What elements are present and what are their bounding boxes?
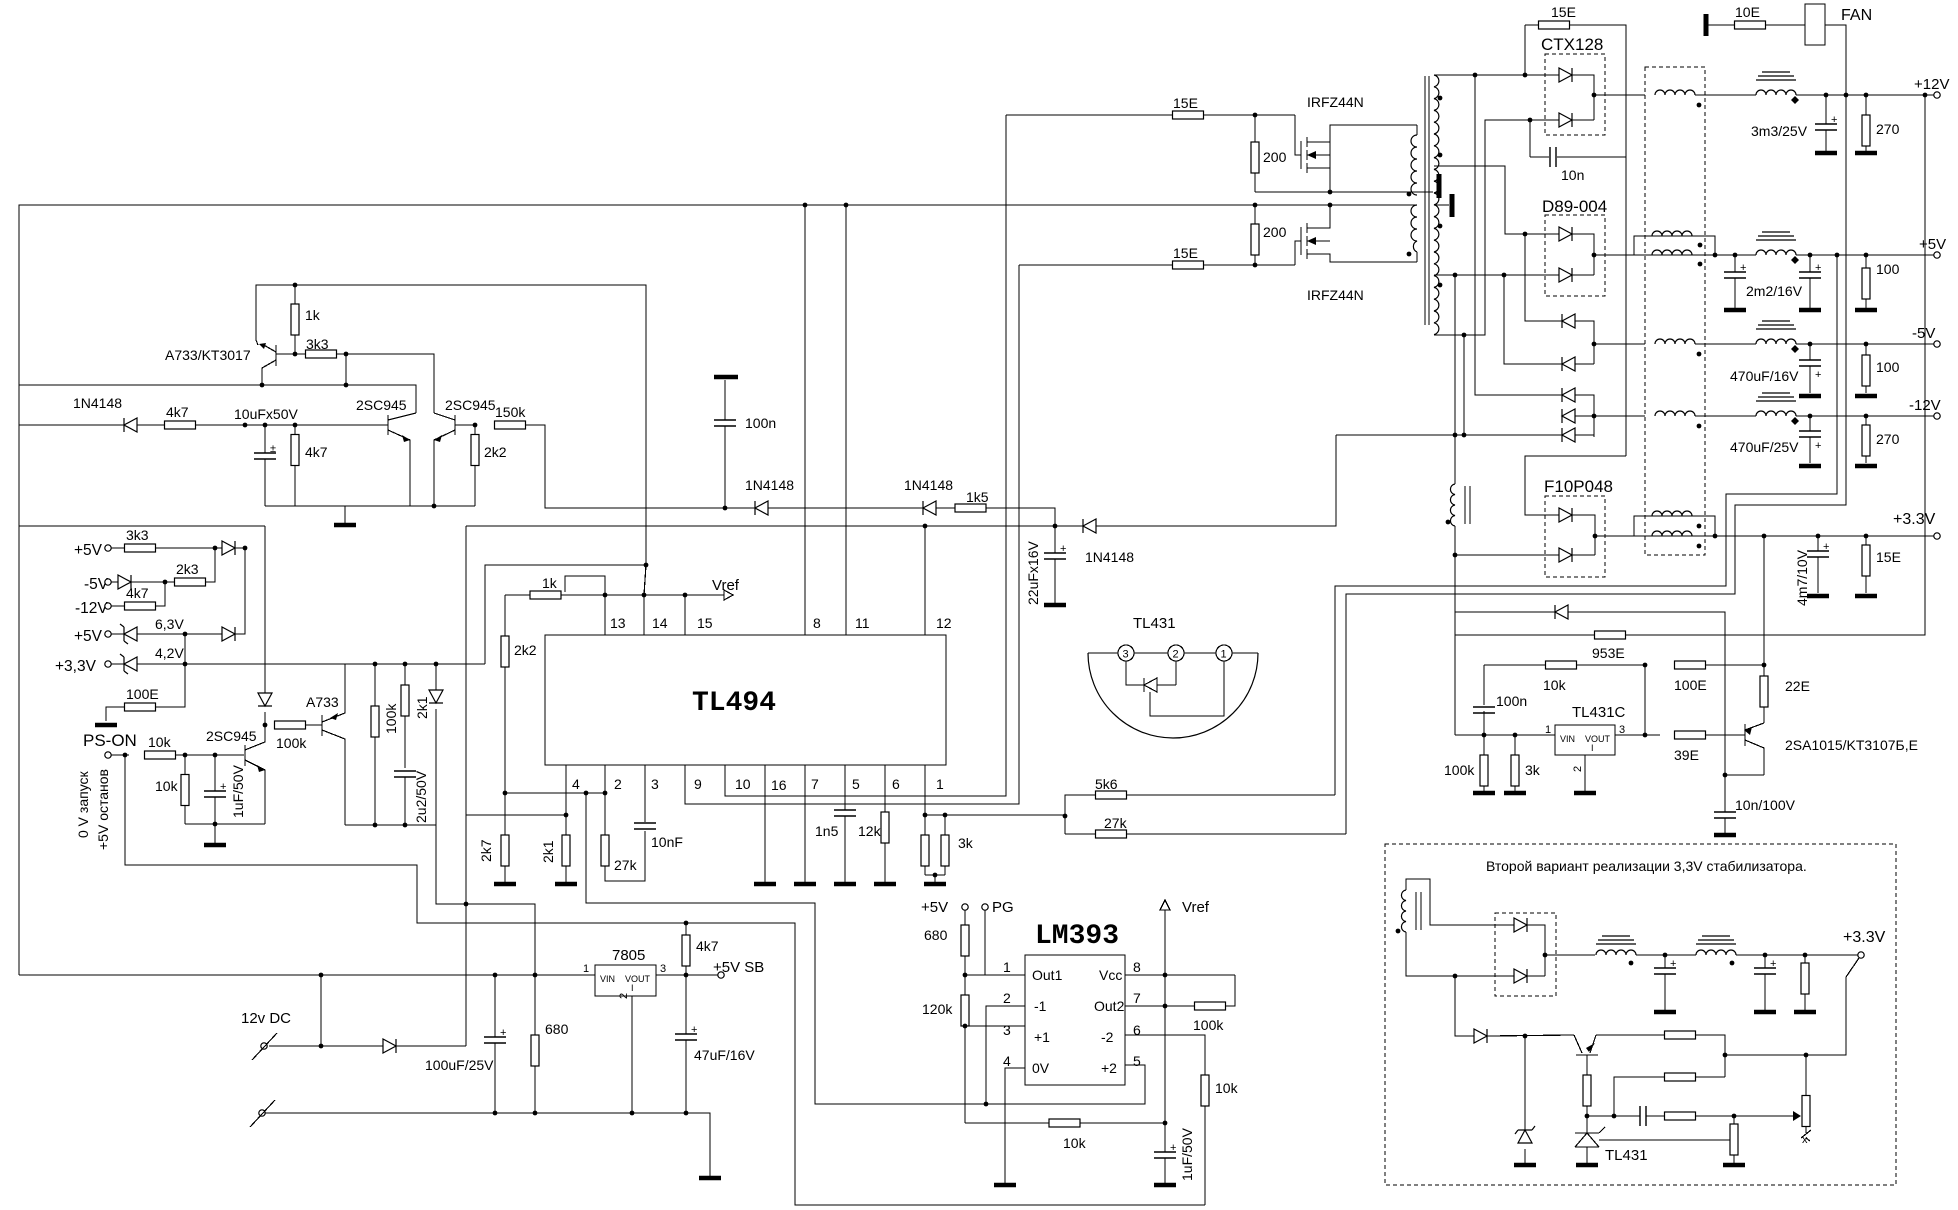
rectifier D1 CTX128 (dashed box) xyxy=(1541,35,1605,135)
svg-text:22uFx16V: 22uFx16V xyxy=(1025,541,1041,605)
svg-text:100E: 100E xyxy=(1674,677,1707,693)
svg-text:2k3: 2k3 xyxy=(176,561,199,577)
svg-text:TL431: TL431 xyxy=(1605,1147,1648,1164)
diode (D89-004 lower) xyxy=(1559,253,1634,282)
svg-text:Второй вариант реализации 3,3V: Второй вариант реализации 3,3V стабилиза… xyxy=(1486,858,1807,874)
resistor 2k1 (pin4 to ground) xyxy=(540,835,577,884)
transistor Q5 A733 (standby switch) xyxy=(306,664,345,825)
transformer T1 primary winding xyxy=(1407,125,1417,262)
svg-text:2: 2 xyxy=(1173,649,1179,661)
resistor 100k (Out2 pullup) xyxy=(1193,975,1235,1033)
wire: LM393 pin1 Out1 xyxy=(965,974,1025,976)
svg-text:+: + xyxy=(1770,958,1776,970)
svg-text:5: 5 xyxy=(852,776,860,792)
wire: LM393 pin7 Out2 xyxy=(1125,1005,1195,1007)
svg-text:2k2: 2k2 xyxy=(514,642,537,658)
wire: feedback sense drop to LM393 xyxy=(586,793,986,1104)
svg-text:15E: 15E xyxy=(1173,95,1198,111)
inductor (+5V output toroid) xyxy=(1756,232,1934,264)
wire: pin8 column to primary CT bus xyxy=(803,203,821,635)
transformer T1 core xyxy=(1425,76,1429,325)
node: standby rail junctions xyxy=(319,902,538,978)
resistor 27k (feedback) xyxy=(601,831,645,881)
zener 6,3V xyxy=(120,616,222,644)
svg-text:16: 16 xyxy=(771,777,787,793)
svg-text:1N4148: 1N4148 xyxy=(73,395,122,411)
capacitor 2m2/16V (second) xyxy=(1799,255,1821,310)
svg-text:7805: 7805 xyxy=(612,947,645,964)
capacitor 10uFx50V xyxy=(234,406,298,506)
inductor (-5V output toroid) xyxy=(1756,321,1934,353)
svg-text:22E: 22E xyxy=(1785,678,1810,694)
diode (2u2 cluster) xyxy=(429,662,443,825)
resistor 680 (7805 input bleed) xyxy=(531,975,569,1115)
wire: Vref rail y=595 with pot loop xyxy=(505,576,687,597)
svg-text:-5V: -5V xyxy=(84,576,109,593)
node: +5V output terminal xyxy=(1919,236,1946,258)
svg-text:1: 1 xyxy=(1003,959,1011,975)
inductor (variant choke 1) xyxy=(1596,936,1696,965)
wire: 3k3 tap down to y=385 xyxy=(345,354,347,385)
resistor 12k (pin6 RT) xyxy=(858,765,900,884)
resistor 120k (PG divider) xyxy=(922,995,969,1123)
svg-text:4: 4 xyxy=(1003,1053,1011,1069)
pin 16 to ground xyxy=(754,765,787,884)
wire: LM393 pin6 -2 xyxy=(1125,1035,1205,1075)
svg-text:1k: 1k xyxy=(542,575,558,591)
wire: pin15 stem xyxy=(684,595,686,635)
svg-text:CTX128: CTX128 xyxy=(1541,35,1603,54)
svg-text:PG: PG xyxy=(992,899,1014,916)
svg-text:8: 8 xyxy=(1133,959,1141,975)
capacitor 3m3/25V xyxy=(1751,95,1837,153)
resistor 39E xyxy=(1674,731,1745,763)
wire: 953E bus left edge drop xyxy=(1454,635,1456,735)
svg-text:3: 3 xyxy=(651,776,659,792)
node: +12V rail junctions xyxy=(1824,93,1928,98)
node: -5V rail junctions xyxy=(1808,342,1869,347)
wire: PS-ON run to LM393 +2 xyxy=(125,755,1205,1205)
svg-text:Vref: Vref xyxy=(712,577,740,594)
IC U4 7805 xyxy=(583,947,721,999)
svg-text:3k3: 3k3 xyxy=(306,336,329,352)
node: +5V sense input row4 xyxy=(74,628,124,645)
svg-text:+2: +2 xyxy=(1101,1060,1117,1076)
svg-text:3k: 3k xyxy=(958,835,974,851)
diode 1N4148 (base row) xyxy=(19,395,164,432)
resistor (variant fb low) xyxy=(1665,1112,1794,1120)
svg-text:15: 15 xyxy=(697,615,713,631)
svg-text:2: 2 xyxy=(1003,990,1011,1006)
node: PG output terminal xyxy=(982,899,1014,975)
svg-text:39E: 39E xyxy=(1674,747,1699,763)
wire: TL431 ref to fb node xyxy=(1700,1116,1734,1140)
svg-text:953E: 953E xyxy=(1592,645,1625,661)
wire: riser +5V upper to -5V diode1 xyxy=(1525,234,1562,321)
wire: pin13 stem xyxy=(604,595,606,635)
resistor 3k (TL431C) xyxy=(1504,735,1541,793)
svg-text:VOUT: VOUT xyxy=(625,974,651,984)
wire: winding top to rectifier xyxy=(1406,879,1514,925)
resistor 15E (gate drive bottom) xyxy=(1019,245,1295,269)
svg-text:5: 5 xyxy=(1133,1053,1141,1069)
diode (F10P048 upper) xyxy=(1559,508,1595,555)
resistor 5k6 xyxy=(1063,776,1335,834)
node: +5V SB output xyxy=(713,959,764,978)
svg-text:1: 1 xyxy=(1221,649,1227,661)
capacitor 47uF/16V xyxy=(675,975,755,1115)
svg-text:+: + xyxy=(1815,440,1821,452)
resistor 10k (PS-ON series) xyxy=(145,734,245,759)
resistor 680 (PG divider) xyxy=(924,925,969,995)
svg-text:270: 270 xyxy=(1876,431,1900,447)
svg-text:-12V: -12V xyxy=(75,600,108,617)
svg-text:10k: 10k xyxy=(148,734,172,750)
node: -5V output terminal xyxy=(1912,325,1940,347)
svg-text:+: + xyxy=(1815,262,1821,274)
ground (primary side bar) xyxy=(1437,174,1442,198)
rectifier (second variant, dashed box) xyxy=(1495,913,1556,996)
svg-text:2SA1015/KT3107Б,Е: 2SA1015/KT3107Б,Е xyxy=(1785,737,1918,753)
svg-text:+5V: +5V xyxy=(74,542,103,559)
svg-text:-1: -1 xyxy=(1034,998,1047,1014)
svg-text:1: 1 xyxy=(936,776,944,792)
node: return input terminal xyxy=(250,1100,275,1127)
svg-text:680: 680 xyxy=(924,927,948,943)
diode (variant bias) xyxy=(1474,1029,1574,1043)
svg-text:10n/100V: 10n/100V xyxy=(1735,797,1796,813)
node: +3.3V output terminal xyxy=(1893,511,1940,539)
svg-text:-2: -2 xyxy=(1101,1029,1114,1045)
transformer T2 aux winding xyxy=(1446,484,1470,526)
wire: A733 emitter top bus y=285 xyxy=(256,285,646,565)
resistor 270 (+12V load) xyxy=(1855,95,1900,153)
resistor 3k3 xyxy=(293,336,434,413)
svg-text:7: 7 xyxy=(1133,990,1141,1006)
capacitor 10n (snubber) xyxy=(1530,147,1626,183)
svg-text:2k7: 2k7 xyxy=(478,839,494,862)
svg-text:1N4148: 1N4148 xyxy=(1085,549,1134,565)
resistor 2k2 (Vref divider to pin4 net) xyxy=(501,595,537,795)
svg-text:100k: 100k xyxy=(276,735,307,751)
node: +3,3V sense input row5 xyxy=(55,658,124,675)
resistor 2k3 xyxy=(175,548,216,586)
wire: TL431C input node y=735 xyxy=(1455,734,1555,736)
svg-text:+: + xyxy=(1060,543,1066,555)
svg-text:47uF/16V: 47uF/16V xyxy=(694,1047,755,1063)
wire: LM393 pin4 0V to ground xyxy=(994,1068,1025,1185)
svg-text:100n: 100n xyxy=(745,415,776,431)
node: +3.3V rail junctions xyxy=(1762,534,1869,539)
IC TL431 (pinout view) xyxy=(1088,615,1258,738)
wire: +5V winding lower tap xyxy=(1434,274,1565,276)
resistor (variant base) xyxy=(1583,1075,1591,1133)
svg-text:27k: 27k xyxy=(1104,815,1128,831)
svg-text:1k: 1k xyxy=(305,307,321,323)
inductor (variant choke 2) xyxy=(1696,936,1858,965)
svg-text:Out1: Out1 xyxy=(1032,967,1063,983)
ground (100E) xyxy=(95,724,117,726)
svg-text:1uF/50V: 1uF/50V xyxy=(1179,1127,1195,1181)
node: Vcc junctions xyxy=(1053,524,1058,529)
diode 1N4148 (aux feed) xyxy=(1083,435,1336,565)
svg-text:3: 3 xyxy=(1619,724,1625,736)
node: -12V rail junctions xyxy=(1808,414,1869,419)
svg-text:100uF/25V: 100uF/25V xyxy=(425,1057,494,1073)
node: +5V comparator supply terminal xyxy=(921,899,968,925)
resistor (variant lower divider) xyxy=(1723,1116,1745,1165)
resistor 3k (pin1 to ground, second) xyxy=(924,815,974,884)
svg-text:2k2: 2k2 xyxy=(484,444,507,460)
svg-text:I: I xyxy=(631,983,634,993)
node: variant +3.3V terminal xyxy=(1723,929,1886,1095)
svg-text:IRFZ44N: IRFZ44N xyxy=(1307,287,1364,303)
svg-text:8: 8 xyxy=(813,615,821,631)
svg-text:1n5: 1n5 xyxy=(815,823,839,839)
resistor 15E (gate drive top) xyxy=(1006,95,1295,119)
svg-text:4k7: 4k7 xyxy=(126,585,149,601)
svg-text:2k1: 2k1 xyxy=(540,840,556,863)
svg-text:14: 14 xyxy=(652,615,668,631)
diode (row2) xyxy=(118,575,175,589)
diode (row1 to crowbar bus) xyxy=(222,541,247,555)
svg-text:+: + xyxy=(1831,114,1837,126)
resistor (variant fb mid) xyxy=(1612,1073,1725,1118)
ground (standby return) xyxy=(699,1177,721,1179)
svg-text:10nF: 10nF xyxy=(651,834,683,850)
svg-text:VIN: VIN xyxy=(600,974,615,984)
node: Vref arrow (LM393 area) xyxy=(1160,899,1210,1123)
svg-text:3m3/25V: 3m3/25V xyxy=(1751,123,1808,139)
svg-text:10k: 10k xyxy=(1063,1135,1087,1151)
svg-text:4k7: 4k7 xyxy=(696,938,719,954)
svg-text:A733: A733 xyxy=(306,694,339,710)
wire: pin11 column to primary CT bus xyxy=(844,203,870,635)
svg-text:150k: 150k xyxy=(495,404,526,420)
svg-text:1N4148: 1N4148 xyxy=(745,477,794,493)
node: collector junction xyxy=(260,383,265,388)
zener (variant clamp) xyxy=(1514,1036,1536,1165)
resistor 15E (snubber) xyxy=(1523,4,1626,456)
resistor 100k (Q4 collector to A733 base) xyxy=(275,721,323,751)
svg-text:+: + xyxy=(1740,262,1746,274)
resistor 2k2 (Q3 collector load) xyxy=(471,425,507,506)
inductor (+5V coupled pair) xyxy=(1634,231,1756,266)
wire: variant winding low to bias diode xyxy=(1455,976,1474,1036)
diode (row4 to crowbar bus) xyxy=(222,548,245,641)
wire: pin1 sense link xyxy=(1064,815,1066,816)
inductor (-12V output toroid) xyxy=(1756,393,1934,425)
svg-text:A733/KT3017: A733/KT3017 xyxy=(165,347,251,363)
wire: 7805 ground pin2 xyxy=(631,996,633,1113)
ground (TL431C pin2) xyxy=(1574,755,1596,793)
svg-text:2: 2 xyxy=(614,776,622,792)
svg-text:11: 11 xyxy=(855,615,870,631)
svg-text:680: 680 xyxy=(545,1021,569,1037)
inductor (-12V choke) xyxy=(1655,411,1756,428)
wire: aux winding column xyxy=(1454,275,1456,635)
svg-text:100: 100 xyxy=(1876,359,1900,375)
wire: LM393 pin8 Vcc xyxy=(1125,974,1235,976)
TL431 (variant) xyxy=(1575,1127,1700,1165)
ground (emitter bus) xyxy=(334,506,356,525)
svg-text:2SC945: 2SC945 xyxy=(356,397,407,413)
dashed common output choke box xyxy=(1645,67,1705,555)
svg-text:TL431C: TL431C xyxy=(1572,704,1626,721)
transistor Q6 IRFZ44N (top MOSFET) xyxy=(1295,94,1417,192)
svg-text:13: 13 xyxy=(610,615,626,631)
svg-text:+12V: +12V xyxy=(1914,76,1949,93)
resistor 1k (Vref trim) xyxy=(530,575,561,599)
wire: TL431C fb link xyxy=(1644,665,1646,735)
svg-text:6,3V: 6,3V xyxy=(155,616,184,632)
svg-text:D89-004: D89-004 xyxy=(1542,197,1607,216)
wire: Vcc bus y=526 from 12v feed xyxy=(19,526,1083,1046)
svg-text:2: 2 xyxy=(618,993,630,999)
svg-text:x: x xyxy=(1802,1134,1808,1146)
wire: 2u2 cluster bottom bus to standby rail xyxy=(345,825,535,975)
transistor Q4 2SC945 (PS-ON) xyxy=(206,725,265,824)
transistor Q9 (variant regulator) xyxy=(1574,1035,1598,1075)
svg-text:2u2/50V: 2u2/50V xyxy=(413,770,429,823)
IC U2 LM393 xyxy=(1003,921,1141,1085)
wire: riser +12V winding to -12V rectifier diode3 xyxy=(1475,75,1562,395)
svg-text:+: + xyxy=(691,1024,697,1036)
svg-text:200: 200 xyxy=(1263,224,1287,240)
resistor 100k (TL431C) xyxy=(1444,735,1495,793)
svg-text:1N4148: 1N4148 xyxy=(904,477,953,493)
svg-text:2: 2 xyxy=(1572,766,1584,772)
resistor 200 (gate-source bottom) xyxy=(1251,203,1287,265)
svg-text:1: 1 xyxy=(1545,724,1551,736)
capacitor 100n (soft start) xyxy=(714,415,776,510)
diode (CTX128 upper) xyxy=(1559,68,1594,120)
svg-text:F10P048: F10P048 xyxy=(1544,477,1613,496)
wire: top MOSFET source to primary ground xyxy=(1255,191,1433,193)
svg-text:10k: 10k xyxy=(1543,677,1567,693)
svg-text:10E: 10E xyxy=(1735,4,1760,20)
ground (100n feedback cap top) xyxy=(714,377,738,420)
svg-text:4,2V: 4,2V xyxy=(155,645,184,661)
node: 12v DC input xyxy=(241,1010,323,1060)
pin 9 output E1 xyxy=(685,265,1019,804)
capacitor 1uF/50V (Vref filter) xyxy=(1154,1123,1195,1185)
resistor 4k7 (series base) xyxy=(165,404,381,429)
svg-text:-5V: -5V xyxy=(1912,325,1935,342)
svg-text:6: 6 xyxy=(892,776,900,792)
diode stack (-12V upper) xyxy=(1562,388,1594,437)
svg-text:2SC945: 2SC945 xyxy=(445,397,496,413)
capacitor 2u2/50V xyxy=(394,770,429,827)
resistor 22E xyxy=(1760,665,1810,723)
inductor (+12V output toroid) xyxy=(1756,72,1934,104)
resistor 2k1 (vertical, 2u2 cluster) xyxy=(401,662,430,768)
svg-text:+3.3V: +3.3V xyxy=(1843,929,1886,946)
svg-text:+: + xyxy=(1823,541,1829,553)
svg-text:Vref: Vref xyxy=(1182,899,1210,916)
svg-text:VOUT: VOUT xyxy=(1585,734,1611,744)
resistor 2k7 (pin4 net to ground) xyxy=(478,793,516,884)
svg-text:12: 12 xyxy=(936,615,952,631)
wire: Q1 collector bus y=385 xyxy=(19,372,416,413)
wire: +5V winding upper tap xyxy=(1434,166,1565,234)
wire: secondary center tap to ground xyxy=(1434,194,1452,217)
svg-text:270: 270 xyxy=(1876,121,1900,137)
svg-text:120k: 120k xyxy=(922,1001,953,1017)
svg-text:+: + xyxy=(1670,958,1676,970)
dashed box: second variant 3.3V stabilizer xyxy=(1385,844,1896,1185)
wire: bottom standby bus from frame to 7805 input xyxy=(19,974,595,976)
wire: standby riser xyxy=(320,975,322,1046)
svg-text:10k: 10k xyxy=(155,778,179,794)
svg-text:TL431: TL431 xyxy=(1133,615,1176,632)
resistor 1k5 xyxy=(955,489,1055,526)
transistor Q7 IRFZ44N (bottom MOSFET) xyxy=(1295,203,1417,303)
capacitor 470uF/16V xyxy=(1730,344,1821,396)
svg-text:15E: 15E xyxy=(1173,245,1198,261)
wire: pin1 net y=815 to 5k6/27k divider xyxy=(925,814,1065,816)
resistor 15E (+3.3V load) xyxy=(1855,536,1901,596)
svg-text:100k: 100k xyxy=(1444,762,1475,778)
svg-text:3k3: 3k3 xyxy=(126,527,149,543)
node: +5V rail junctions xyxy=(1733,253,1869,258)
node: sec bottom junction xyxy=(1462,333,1467,338)
svg-text:7: 7 xyxy=(811,776,819,792)
svg-text:470uF/16V: 470uF/16V xyxy=(1730,368,1799,384)
wire: +3.3V reg feed down to TL431C node xyxy=(1763,536,1765,665)
wire: riser +12V lower input to -12V diode2 xyxy=(1504,120,1562,364)
wire: TL431C output to 39E xyxy=(1615,734,1660,736)
resistor 4k7 (base divider) xyxy=(291,425,328,506)
node: +12V output terminal xyxy=(1914,76,1949,98)
svg-text:2m2/16V: 2m2/16V xyxy=(1746,283,1803,299)
transistor Q8 2SA1015/KT3107Б,Е xyxy=(1744,723,1918,775)
diode (variant rect upper) xyxy=(1514,918,1545,976)
capacitor (variant filter 1) xyxy=(1654,955,1676,1012)
capacitor 100uF/25V xyxy=(425,975,506,1115)
resistor 4k7 (row3) xyxy=(125,582,166,610)
resistor 3k3 (row1) xyxy=(125,527,223,552)
svg-text:+5V останов: +5V останов xyxy=(95,769,111,850)
svg-text:100k: 100k xyxy=(383,703,399,734)
svg-text:+1: +1 xyxy=(1034,1029,1050,1045)
svg-text:0 V запуск: 0 V запуск xyxy=(75,770,91,838)
wire: y=565 link from Vref bus to protection network xyxy=(485,565,646,664)
svg-text:+5V: +5V xyxy=(921,899,948,916)
diode stack (-5V upper) xyxy=(1562,314,1594,364)
wire: Vref protection bus y=664 to 2u2 cluster xyxy=(185,663,485,665)
transistor Q1 A733/KT3017 xyxy=(165,343,295,372)
pin 2 xyxy=(603,765,622,835)
wire: 953E bus from aux xyxy=(1455,555,1595,635)
wire: F10P048 upper feed from snubber column xyxy=(1525,456,1626,515)
diode (F10P048 lower) xyxy=(1455,534,1634,562)
resistor (variant fb top) xyxy=(1596,1031,1725,1077)
transistor Q2 2SC945 xyxy=(356,397,416,506)
resistor 953E xyxy=(1592,95,1925,661)
svg-text:200: 200 xyxy=(1263,149,1287,165)
svg-text:I: I xyxy=(1591,743,1594,753)
svg-text:1uF/50V: 1uF/50V xyxy=(230,764,246,818)
transformer T1 secondary winding xyxy=(1434,75,1442,335)
inductor (+3.3V coupled pair) xyxy=(1634,511,1934,548)
node: -12V output terminal xyxy=(1909,397,1941,419)
diode stack (-5V lower) xyxy=(1562,342,1645,371)
resistor 3k (pin1 to ground, first) xyxy=(921,815,929,875)
inductor (-5V choke) xyxy=(1655,339,1756,356)
wire: standby return bus y=1113 xyxy=(265,1113,710,1176)
wire: pin14 stem and riser to y=565/285 xyxy=(644,285,646,635)
